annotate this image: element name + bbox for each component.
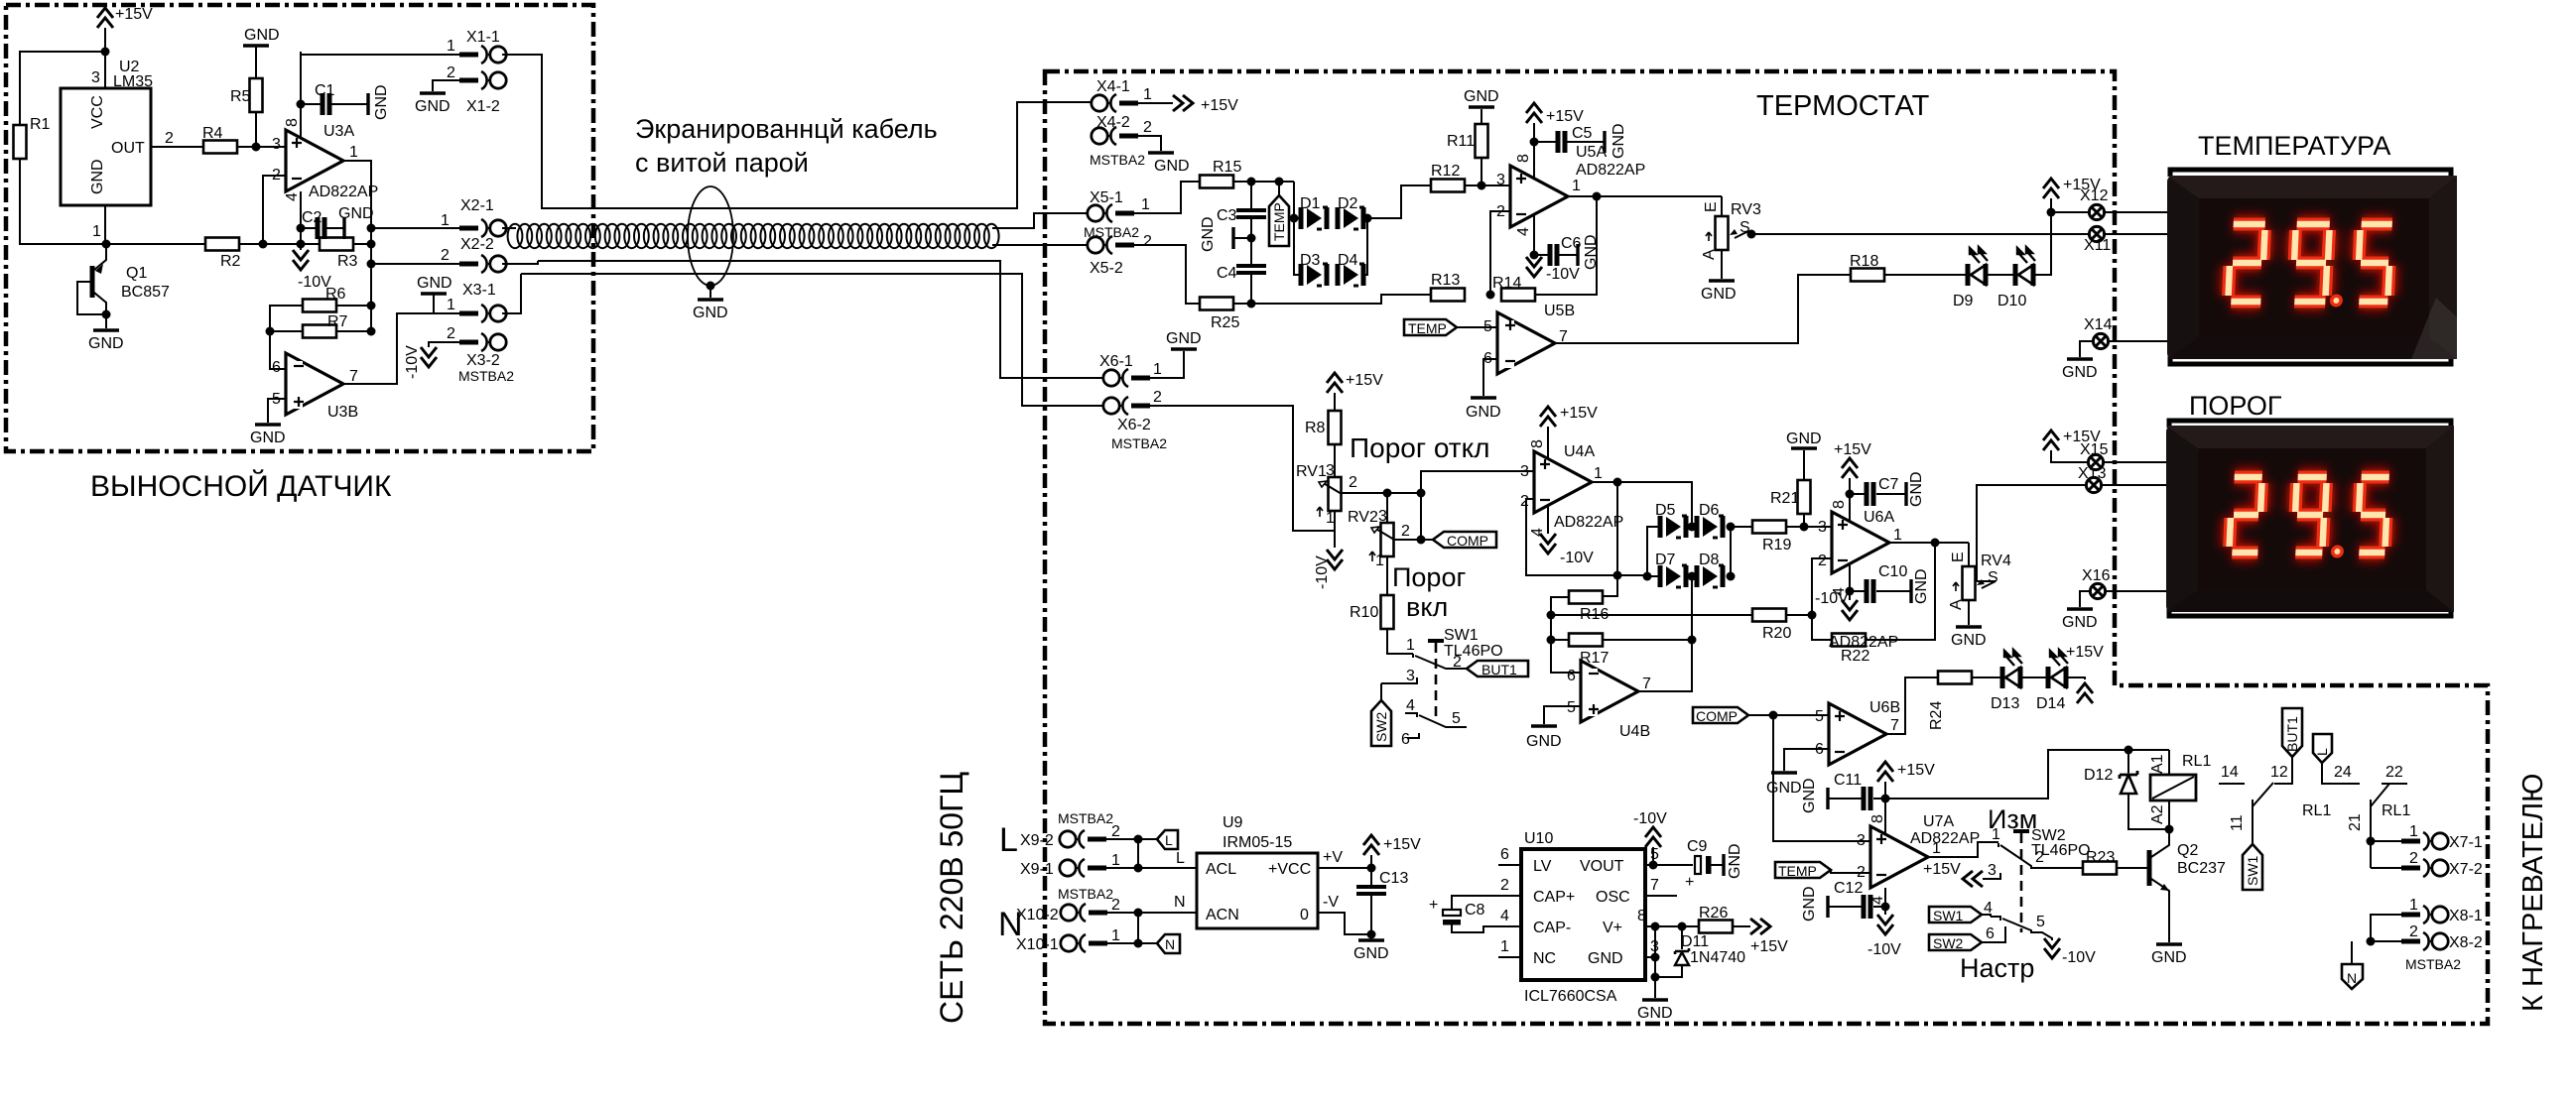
wire R15 to D rail [1233,181,1294,183]
svg-text:L: L [1165,832,1173,848]
svg-text:C9: C9 [1687,838,1708,855]
svg-text:GND: GND [1701,286,1737,303]
connector X7-2 [2401,850,2483,878]
op-amp U3B [272,353,358,421]
node C10 [1846,587,1855,596]
svg-text:AD822AP: AD822AP [309,184,378,200]
svg-text:1N4740: 1N4740 [1690,949,1745,966]
wire U5A pin2 loop to R13 R14 [1490,211,1510,295]
pin 4 CAP- [1498,908,1521,926]
svg-text:6: 6 [1567,668,1576,684]
svg-text:2: 2 [1143,119,1152,136]
svg-text:1: 1 [1111,927,1120,944]
trimmer RV2 [1348,508,1410,569]
svg-text:2: 2 [447,64,455,81]
svg-text:R12: R12 [1431,163,1460,180]
svg-text:D6: D6 [1699,502,1720,519]
svg-text:6: 6 [1401,731,1410,748]
wire U5A output [1568,195,1722,197]
svg-text:BC857: BC857 [121,284,170,301]
svg-text:X4-1: X4-1 [1096,78,1130,95]
wire X9-1 to U9 ACL [1106,867,1197,869]
svg-text:GND: GND [244,27,280,44]
svg-text:X9-2: X9-2 [1020,832,1054,849]
terminal X16 [2082,567,2111,599]
resistor R16 [1569,591,1609,624]
wire X13 to display2 [2102,484,2166,486]
svg-text:U3B: U3B [327,404,358,421]
power +15V top-left [97,6,153,88]
svg-text:R13: R13 [1431,272,1460,289]
svg-text:14: 14 [2221,764,2239,781]
resistor R18 [1850,253,1884,282]
svg-text:GND: GND [88,335,124,352]
svg-text:R5: R5 [230,88,251,105]
svg-text:-10V: -10V [1546,266,1580,283]
resistor R26 [1699,905,1733,933]
svg-text:U10: U10 [1524,830,1553,847]
svg-text:1: 1 [1594,465,1603,482]
led D9 [1953,247,1988,309]
svg-text:X5-2: X5-2 [1090,260,1123,277]
svg-text:1: 1 [1893,527,1902,544]
svg-text:8: 8 [1637,908,1646,924]
resistor R23 [2083,849,2117,875]
trimmer RV3 [1701,196,1761,260]
terminal X15 [2080,441,2109,470]
node R20 branch [1547,611,1556,620]
wire U6A out [1889,542,1969,544]
svg-text:A: A [1701,249,1718,260]
IC U9 IRM05-15 [1197,814,1318,928]
flag TEMP vertical [1269,182,1289,246]
svg-text:D1: D1 [1300,195,1321,212]
thermostat + heater box border [1045,71,2488,1024]
ground cable shield [693,286,728,321]
wire C13 bottom [1370,896,1372,934]
op-amp U3A [272,118,378,201]
wire U3B out up to X3-1 [343,313,459,384]
relay contact 1 [2219,757,2331,844]
svg-text:C8: C8 [1465,902,1485,919]
ground X3-1 [417,275,452,313]
capacitor C2 [301,205,374,239]
svg-text:C1: C1 [315,82,335,99]
svg-text:4: 4 [1500,908,1509,924]
power -10V SW2 pin5 [2044,938,2096,966]
wire R17 left [1551,639,1569,641]
wire X10 vertical [1137,913,1139,943]
svg-text:2: 2 [1349,474,1357,491]
node D6 out [1727,523,1736,532]
svg-text:+V: +V [1323,849,1343,866]
power +15V X15 [2043,429,2101,462]
svg-text:X9-1: X9-1 [1020,861,1054,878]
svg-text:C5: C5 [1572,125,1593,142]
svg-text:U3A: U3A [323,123,354,140]
svg-text:12: 12 [2270,764,2288,781]
ground above R5 [243,27,280,80]
svg-text:2: 2 [2409,850,2418,867]
transistor Q2 BC237 [2149,829,2226,942]
svg-text:AD822AP: AD822AP [1554,514,1623,531]
svg-text:1: 1 [1153,361,1162,378]
zener D11 [1655,926,1745,977]
svg-text:-10V: -10V [1560,550,1594,566]
svg-text:GND: GND [1464,88,1499,105]
svg-text:C2: C2 [302,209,322,226]
flag SW1 vertical [2243,844,2262,890]
connector X9-1 [1020,852,1120,878]
wire RV3 S to X11 [1748,231,2090,234]
svg-text:Порог: Порог [1392,562,1466,592]
svg-text:R14: R14 [1492,275,1521,292]
node rail out [367,240,376,249]
display DS2 frame bottom [2169,608,2451,616]
node output [1593,192,1602,201]
wire R23 to Q2 base [2117,867,2149,869]
wire R25 rail to R13 [1233,295,1431,304]
svg-text:R10: R10 [1350,604,1378,621]
svg-text:4: 4 [1515,227,1532,236]
svg-text:2: 2 [1520,493,1529,510]
svg-text:X14: X14 [2084,316,2113,333]
svg-text:X10-1: X10-1 [1016,936,1059,953]
capacitor C5 [1534,123,1627,159]
node U4A pin3 drop [1417,489,1426,498]
wire V+ gnd rail [1654,926,1656,980]
svg-text:6: 6 [1500,846,1509,863]
wire to U4A pin3 [1421,471,1534,493]
flag L [1157,830,1178,849]
svg-text:GND: GND [1801,778,1818,813]
node D out [1363,214,1372,223]
svg-text:8: 8 [1831,500,1848,509]
power -10V U6A [1815,590,1858,620]
svg-text:S: S [1988,569,1998,586]
svg-text:8: 8 [1529,439,1546,448]
svg-text:MSTBA2: MSTBA2 [1090,152,1145,168]
wire U4B out to D7 D8 mid [1638,640,1692,691]
svg-text:OSC: OSC [1596,889,1630,906]
resistor R10 [1350,595,1394,629]
wire X1-1 shield top line to X4-1 [502,55,1091,208]
svg-text:R24: R24 [1928,701,1945,730]
IC U2 LM35 [61,59,174,240]
svg-text:R23: R23 [2086,849,2115,866]
node V+ rail [1651,922,1660,931]
svg-text:ТЕМПЕРАТУРА: ТЕМПЕРАТУРА [2198,131,2390,161]
node U4A out [1613,478,1622,487]
svg-text:3: 3 [1326,462,1335,479]
ground X16 [2062,591,2098,631]
ground Q2 [2151,944,2187,966]
resistor R6 [303,286,346,312]
svg-text:2: 2 [1453,654,1462,671]
svg-text:U7A: U7A [1923,813,1954,830]
node C13 [1367,864,1376,873]
wire to X2-2 [371,263,459,265]
svg-text:A: A [1948,599,1965,610]
connector X4-2 [1092,114,1152,145]
flag COMP U6B [1693,707,1748,724]
svg-text:L: L [999,821,1018,859]
svg-text:X8-1: X8-1 [2449,908,2483,924]
node X8-2 [2367,937,2376,946]
connector X8-1 [2401,897,2483,924]
node C6 [1530,251,1539,260]
svg-text:1: 1 [447,38,455,55]
node X10 join [1134,909,1143,918]
wire pair to X5-2 [992,244,1087,246]
svg-text:5: 5 [1567,699,1576,716]
connector X8-2 [2401,923,2483,951]
svg-text:4: 4 [284,192,301,201]
svg-text:6: 6 [272,359,281,376]
svg-text:COMP: COMP [1696,708,1738,724]
zener D12 [2084,750,2169,829]
svg-text:ВЫНОСНОЙ ДАТЧИК: ВЫНОСНОЙ ДАТЧИК [90,469,392,503]
svg-text:OUT: OUT [111,140,145,157]
wire U3A output to X2-1 [343,161,371,332]
svg-text:R3: R3 [337,253,358,270]
pin 7 OSC [1645,877,1677,896]
capacitor C10 [1850,563,1930,604]
node X2-2 tap [367,260,376,269]
terminal X14 [2084,316,2113,349]
svg-text:MSTBA2: MSTBA2 [1058,886,1113,902]
svg-text:U5B: U5B [1544,303,1575,319]
node RV3 S [1747,230,1756,239]
svg-text:11: 11 [2229,814,2246,831]
capacitor C13 [1356,868,1408,894]
connector X5-1 [1088,189,1150,222]
svg-text:1: 1 [441,212,450,229]
pin 1 NC [1498,938,1521,957]
svg-text:-10V: -10V [2062,949,2096,966]
svg-text:X5-1: X5-1 [1090,189,1123,206]
svg-text:Порог откл: Порог откл [1350,432,1490,463]
svg-text:-10V: -10V [1868,941,1901,958]
wire X16 to display2 [2106,590,2166,592]
op-amp U4A [1520,439,1623,537]
svg-text:N: N [2347,970,2357,986]
svg-text:2: 2 [1143,233,1152,250]
wire X3 line to X6-2 [502,274,1102,406]
ground U6B pin6 [1766,749,1829,797]
svg-text:R7: R7 [327,313,348,330]
svg-text:E: E [1950,552,1967,562]
op-amp U5A [1496,144,1645,236]
svg-text:GND: GND [2062,364,2098,381]
node R5 bottom junction [252,143,261,152]
node C5 [1530,138,1539,147]
svg-text:R2: R2 [220,253,241,270]
diode D1 [1300,195,1328,229]
svg-text:4: 4 [1406,697,1415,714]
node pin2 drop [259,240,268,249]
wire R3 to output node [353,243,371,245]
ground U3B pin5 [250,399,286,446]
node C4 bottom [1247,300,1256,308]
svg-text:21: 21 [2347,813,2364,831]
wire R24 to D13 [1972,676,2002,678]
connector X2-1 [441,197,506,237]
capacitor C6 [1534,234,1600,270]
connector X3-1 [447,282,506,322]
wire X5-2 to R25 [1134,245,1200,304]
svg-text:+VCC: +VCC [1268,861,1311,878]
svg-text:X1-2: X1-2 [466,98,500,115]
svg-text:D8: D8 [1699,552,1720,568]
capacitor C1 [301,82,390,120]
node X9 join [1134,835,1143,844]
svg-text:1: 1 [1932,840,1941,857]
svg-text:X3-1: X3-1 [462,282,496,299]
svg-text:U4B: U4B [1619,723,1650,740]
svg-text:1: 1 [1111,852,1120,869]
svg-text:R6: R6 [325,286,346,303]
node C7 [1846,490,1855,499]
wire R10 to SW1 pin1 [1387,629,1413,654]
wire X11 to display [2105,233,2167,235]
svg-text:GND: GND [2151,949,2187,966]
svg-text:GND: GND [1908,471,1925,507]
diode D5 [1655,502,1687,538]
wire X10-1 to N flag [1107,942,1157,944]
svg-text:GND: GND [1154,158,1190,175]
power -10V RV1 [1314,531,1343,589]
op-amp U4B [1567,661,1651,740]
svg-text:X11: X11 [2084,237,2111,254]
svg-text:0: 0 [1300,907,1309,923]
power +15V U5A [1526,103,1584,179]
node D11 top [1678,922,1687,931]
connector X10-2 [1016,897,1120,923]
op-amp U5B [1483,303,1575,374]
trimmer RV1 [1296,462,1342,527]
svg-text:NC: NC [1533,950,1556,967]
connector X3-2 [447,325,506,369]
wire X14 to display [2109,340,2167,342]
svg-text:2: 2 [1401,523,1410,540]
svg-text:1: 1 [1141,196,1150,213]
wire R16 left [1551,597,1583,673]
op-amp U7A [1857,813,1980,905]
capacitor C4 [1217,265,1266,304]
svg-text:+15V: +15V [1560,405,1598,422]
node U6A fb [1808,611,1817,620]
svg-text:+15V: +15V [2066,644,2104,661]
op-amp U6B [1815,699,1900,765]
wire U2 pin1 [104,205,106,244]
wire R14 to output [1535,196,1597,295]
svg-text:+: + [1685,874,1694,891]
resistor R15 [1200,159,1241,188]
wire X15 to display2 [2104,461,2166,463]
wire U6B out to R24 [1886,677,1938,734]
node R11 join [1478,182,1486,190]
svg-text:GND: GND [1766,780,1802,797]
node X7-1 [2367,837,2376,846]
svg-text:RL1: RL1 [2382,802,2410,819]
pin 2 CAP+ [1498,877,1521,896]
wire D6 to R19 [1731,526,1752,528]
svg-text:X16: X16 [2082,567,2111,584]
svg-text:1: 1 [1143,86,1152,103]
svg-text:X2-1: X2-1 [460,197,494,214]
connector X6-1 [1099,353,1162,387]
wire +15V rail to relay [1885,750,2169,799]
svg-text:с витой парой: с витой парой [635,148,809,178]
wire U6A pin2 loop [1812,558,1833,640]
svg-text:L: L [1176,850,1185,867]
ground X4-2 [1138,136,1190,175]
svg-text:SW1: SW1 [1933,908,1964,923]
node out RV4 [1931,539,1940,548]
wire D9 D10 [1986,274,2015,276]
svg-text:AD822AP: AD822AP [1576,162,1645,179]
ground U5B pin6 [1466,359,1501,421]
node R17 left [1547,636,1556,645]
svg-text:GND: GND [1466,404,1501,421]
svg-text:X6-2: X6-2 [1117,417,1151,433]
wire feedback to D7 [1617,574,1647,576]
node VOUT [1649,861,1658,870]
wire D10 up to +15V node [2033,212,2051,275]
svg-text:2: 2 [441,247,450,264]
sensor box border [6,5,593,451]
wire R7 right [336,330,371,332]
wire D net left column [1647,527,1658,576]
resistor R8 [1305,411,1342,444]
svg-text:+15V: +15V [1201,97,1238,114]
power -10V VOUT [1633,810,1667,865]
svg-text:MSTBA2: MSTBA2 [458,368,514,384]
svg-text:1: 1 [1992,826,2000,843]
svg-text:ICL7660CSA: ICL7660CSA [1524,988,1617,1005]
svg-text:LV: LV [1533,858,1552,875]
svg-text:X6-1: X6-1 [1099,353,1133,370]
node U2 pin1 [102,240,111,249]
svg-text:BUT1: BUT1 [1481,662,1517,677]
svg-text:VCC: VCC [89,95,106,129]
switch SW1 TL46PO [1381,627,1503,748]
svg-text:BC237: BC237 [2177,860,2226,877]
display DS2 body [2166,426,2454,612]
resistor R2 [205,238,241,271]
wire shield bottom to X6-1 [538,261,1102,378]
resistor R12 [1431,163,1465,192]
wire RV2 bottom to R10 [1386,556,1388,595]
svg-text:2: 2 [165,130,174,147]
svg-text:ACN: ACN [1206,907,1239,923]
svg-text:7: 7 [349,368,358,385]
relay coil RL1 [2149,750,2211,829]
node C3 C4 gnd [1200,216,1256,264]
wire out down [1601,482,1617,596]
svg-text:7: 7 [1650,877,1659,894]
svg-text:D11: D11 [1681,933,1709,950]
wire RV2 wiper to COMP [1394,539,1433,541]
wire X12 to display [2051,211,2167,213]
power -10V X3-2 [404,345,437,379]
node R6 out [367,302,376,310]
pin 6 LV [1498,846,1521,865]
ground U4B pin5 [1526,706,1581,750]
node C11 +15V [1881,795,1890,803]
resistor R13 [1431,272,1465,302]
